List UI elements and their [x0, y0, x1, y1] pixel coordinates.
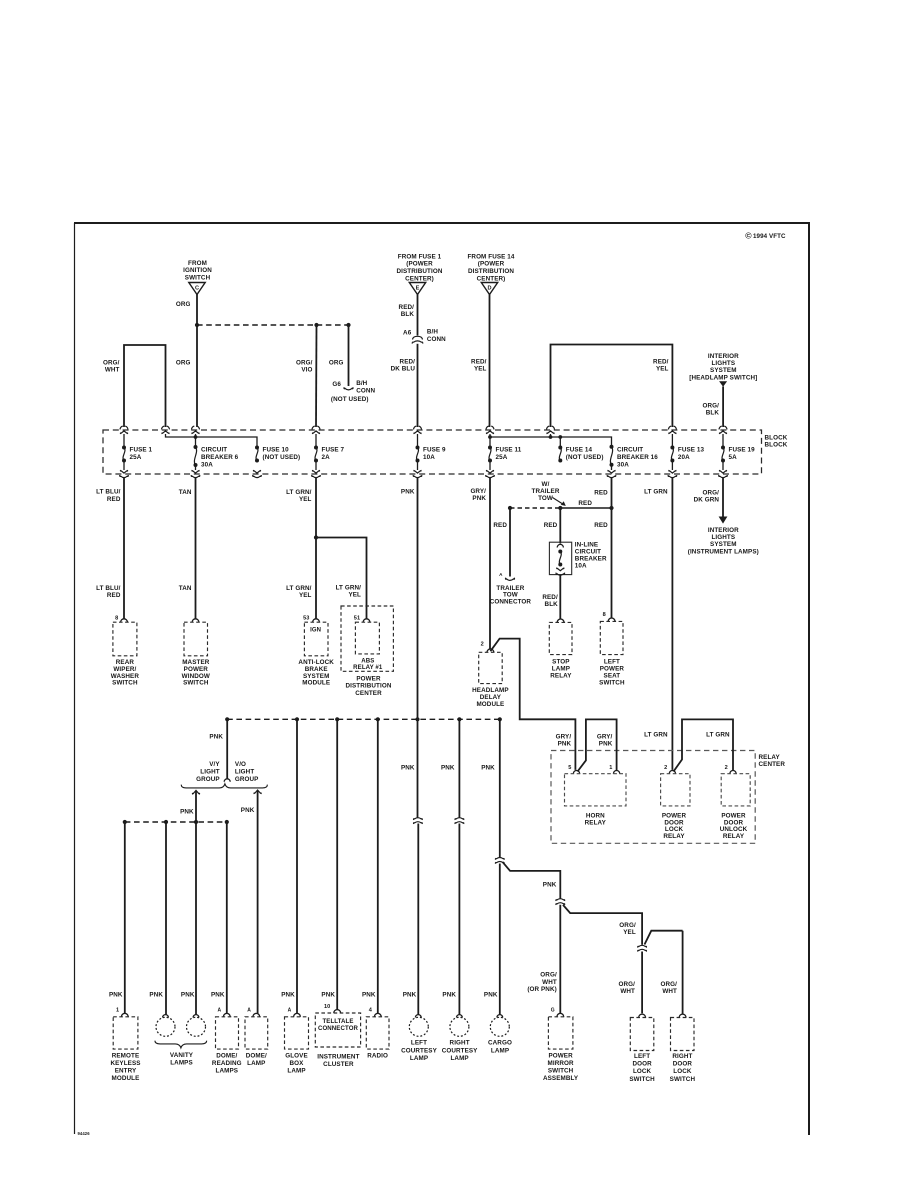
svg-text:LT GRN/: LT GRN/	[286, 585, 312, 592]
svg-text:MODULE: MODULE	[476, 701, 504, 708]
svg-text:CENTER): CENTER)	[405, 275, 434, 282]
node: PNK bus junction x=377.8	[376, 717, 380, 721]
svg-text:PNK: PNK	[472, 495, 486, 502]
vanity lamp 2	[193, 1015, 199, 1018]
node: LT GRN/YEL branch junction	[314, 535, 318, 539]
svg-text:FUSE 11: FUSE 11	[496, 446, 522, 453]
svg-text:PNK: PNK	[241, 807, 255, 814]
svg-text:94426: 94426	[78, 1131, 91, 1136]
node: PNK sub-bus junction x=196	[194, 820, 198, 824]
svg-text:A: A	[217, 1008, 221, 1014]
svg-text:YEL: YEL	[474, 365, 487, 372]
fuse block output connector x=490	[486, 470, 495, 478]
svg-text:WHT: WHT	[542, 979, 557, 986]
svg-text:DOME/: DOME/	[216, 1052, 237, 1059]
svg-text:CIRCUIT: CIRCUIT	[617, 446, 643, 453]
svg-text:(POWER: (POWER	[478, 261, 505, 268]
circuit breaker 6 30A	[194, 445, 198, 467]
svg-text:CLUSTER: CLUSTER	[323, 1061, 354, 1068]
trailer tow bus: dashed optional segment + solid segment	[510, 507, 560, 509]
svg-text:RED/: RED/	[400, 358, 416, 365]
svg-text:RELAY: RELAY	[759, 754, 781, 761]
svg-text:BLK: BLK	[401, 311, 415, 318]
svg-text:B/H: B/H	[356, 380, 367, 387]
svg-text:LT GRN: LT GRN	[644, 489, 668, 496]
svg-text:MODULE: MODULE	[112, 1075, 140, 1082]
svg-text:LEFT: LEFT	[411, 1039, 427, 1046]
svg-text:RED: RED	[594, 489, 608, 496]
wire RED to in-line circuit breaker	[559, 508, 561, 544]
svg-text:(INSTRUMENT LAMPS): (INSTRUMENT LAMPS)	[688, 548, 759, 555]
svg-text:RELAY: RELAY	[585, 819, 607, 826]
svg-text:WHT: WHT	[620, 988, 635, 995]
svg-text:LT GRN: LT GRN	[706, 732, 730, 739]
svg-text:YEL: YEL	[656, 365, 669, 372]
svg-text:INTERIOR: INTERIOR	[708, 527, 739, 534]
right door lock switch	[679, 1014, 686, 1017]
svg-text:RELAY #1: RELAY #1	[353, 664, 383, 671]
node: PNK bus junction x=297.0	[295, 717, 299, 721]
svg-text:PNK: PNK	[401, 489, 415, 496]
svg-text:COURTESY: COURTESY	[401, 1047, 437, 1054]
wire LT GRN/YEL fuse 7 to anti-lock brake system module	[315, 478, 317, 619]
svg-text:(NOT USED): (NOT USED)	[263, 454, 301, 461]
svg-text:SYSTEM: SYSTEM	[710, 541, 737, 548]
svg-text:CONNECTOR: CONNECTOR	[318, 1025, 359, 1032]
fuse block input connector x=195.5	[192, 426, 200, 434]
svg-text:G6: G6	[332, 381, 341, 388]
svg-text:CONN: CONN	[427, 336, 446, 343]
wire jumper horn relay pin 5 to pin 1	[578, 719, 617, 771]
svg-text:TAN: TAN	[179, 489, 192, 496]
svg-text:PNK: PNK	[484, 992, 498, 999]
svg-text:BREAKER 16: BREAKER 16	[617, 454, 658, 461]
svg-text:BLOCK: BLOCK	[765, 435, 788, 442]
wire ORG/WHT tap to right door lock switch	[645, 931, 683, 945]
svg-text:YEL: YEL	[623, 929, 636, 936]
circuit breaker 16 30A	[610, 445, 614, 467]
svg-text:PNK: PNK	[109, 992, 123, 999]
svg-text:RELAY: RELAY	[723, 833, 745, 840]
svg-text:A: A	[288, 1008, 292, 1014]
fuse output stub x=490	[489, 461, 491, 471]
fuse block input connector x=316	[312, 426, 320, 434]
svg-text:PNK: PNK	[481, 765, 495, 772]
svg-text:PNK: PNK	[211, 992, 225, 999]
wire PNK option V/Y with up arrow	[195, 791, 197, 1015]
svg-text:51: 51	[354, 615, 360, 621]
wire RED/BLK to stop lamp relay	[559, 575, 561, 619]
node: PNK sub-bus junction x=226.8	[225, 820, 229, 824]
svg-text:SWITCH: SWITCH	[670, 1076, 696, 1083]
fuse input stub x=417.5	[417, 434, 419, 448]
svg-text:5: 5	[568, 765, 571, 771]
svg-text:TELLTALE: TELLTALE	[322, 1018, 353, 1025]
svg-text:PNK: PNK	[401, 765, 415, 772]
svg-text:(NOT USED): (NOT USED)	[566, 454, 604, 461]
svg-text:COURTESY: COURTESY	[442, 1047, 478, 1054]
svg-text:1: 1	[609, 765, 612, 771]
fuse block output connector x=672.4	[668, 470, 677, 478]
svg-text:READING: READING	[212, 1060, 242, 1067]
fuse 7 2A	[314, 446, 318, 463]
svg-text:LT GRN: LT GRN	[644, 732, 668, 739]
wire PNK to instrument cluster	[336, 719, 338, 1009]
svg-text:LIGHT: LIGHT	[235, 769, 254, 776]
in-line circuit breaker 10A	[549, 542, 571, 574]
wire jumper door lock relay pin 2 to unlock relay pin 2	[674, 719, 734, 771]
svg-text:25A: 25A	[496, 454, 508, 461]
svg-text:V/O: V/O	[235, 761, 246, 768]
svg-text:10A: 10A	[423, 454, 435, 461]
fuse 10 (not used)	[255, 446, 259, 463]
svg-text:ORG/: ORG/	[296, 359, 313, 366]
svg-text:2: 2	[664, 765, 667, 771]
svg-text:DISTRIBUTION: DISTRIBUTION	[346, 683, 392, 690]
wire RED/YEL to fuse 11	[489, 295, 491, 428]
svg-text:YEL: YEL	[348, 592, 361, 599]
svg-text:A: A	[499, 572, 503, 577]
svg-text:2: 2	[725, 765, 728, 771]
wire PNK tap to power mirror switch assembly	[503, 862, 561, 899]
fuse block input connector x=723	[719, 426, 727, 434]
svg-text:30A: 30A	[617, 461, 629, 468]
svg-text:REMOTE: REMOTE	[112, 1052, 140, 1059]
svg-text:G: G	[551, 1008, 555, 1014]
svg-text:DOME/: DOME/	[246, 1052, 267, 1059]
wire ORG stub to unused B/H connector G6	[348, 325, 350, 386]
svg-text:PNK: PNK	[362, 992, 376, 999]
svg-text:PNK: PNK	[181, 992, 195, 999]
wire PNK to vanity lamp 1	[165, 822, 167, 1015]
svg-text:SWITCH: SWITCH	[629, 1076, 655, 1083]
fuse 19 5A	[721, 446, 725, 463]
svg-text:RED: RED	[107, 592, 121, 599]
svg-text:RED: RED	[594, 522, 608, 529]
svg-text:INTERIOR: INTERIOR	[708, 353, 739, 360]
svg-text:1994 VFTC: 1994 VFTC	[753, 233, 786, 240]
svg-text:30A: 30A	[201, 461, 213, 468]
svg-text:SWITCH: SWITCH	[599, 679, 625, 686]
wire LT GRN fuse 13 to power door lock relay	[671, 478, 673, 770]
svg-text:LAMPS: LAMPS	[170, 1059, 193, 1066]
svg-text:LAMP: LAMP	[247, 1060, 265, 1067]
connector triangle C from ignition switch	[183, 260, 212, 295]
connector triangle E from fuse 1 (power distribution center)	[397, 253, 443, 294]
svg-text:TOW: TOW	[538, 495, 553, 502]
svg-text:LT BLU/: LT BLU/	[96, 489, 121, 496]
stop lamp relay	[557, 619, 564, 622]
fuse 13 20A	[670, 446, 674, 463]
svg-text:ORG: ORG	[176, 301, 191, 308]
wire RED breaker 16 to left power seat switch	[611, 478, 613, 618]
svg-text:TAN: TAN	[179, 585, 192, 592]
svg-text:8: 8	[603, 612, 606, 618]
svg-text:DISTRIBUTION: DISTRIBUTION	[397, 268, 443, 275]
fuse 1 25A	[122, 446, 126, 463]
breaker output stubs	[195, 465, 197, 470]
svg-text:4: 4	[369, 1008, 373, 1014]
fuse block output connector x=257	[253, 470, 262, 478]
fuse block input connector x=490	[486, 426, 494, 434]
svg-text:POWER: POWER	[548, 1052, 573, 1059]
connector G6 B/H CONN (not used)	[344, 387, 353, 390]
svg-text:SWITCH: SWITCH	[185, 274, 211, 281]
svg-text:IGNITION: IGNITION	[183, 267, 212, 274]
svg-text:YEL: YEL	[299, 592, 312, 599]
wire PNK to glove box lamp	[296, 719, 298, 1013]
svg-text:IGN: IGN	[310, 628, 321, 634]
svg-text:CENTER: CENTER	[355, 690, 382, 697]
wire ORG/WHT branch (inverted U feeding fuse 1 and breaker 6 bus)	[124, 345, 166, 427]
svg-text:MIRROR: MIRROR	[548, 1060, 574, 1067]
page border frame	[74, 222, 810, 224]
connector triangle D from fuse 14 (power distribution center)	[467, 253, 514, 294]
svg-text:V/Y: V/Y	[209, 761, 220, 768]
svg-text:RED: RED	[544, 522, 558, 529]
fuse block input connector x=124	[120, 426, 128, 434]
svg-text:PNK: PNK	[442, 992, 456, 999]
svg-text:FUSE 7: FUSE 7	[322, 446, 345, 453]
svg-text:GLOVE: GLOVE	[285, 1052, 308, 1059]
svg-text:WHT: WHT	[105, 366, 120, 373]
svg-text:ORG/: ORG/	[619, 981, 636, 988]
svg-text:1: 1	[116, 1008, 119, 1014]
svg-text:CENTER: CENTER	[759, 761, 786, 768]
svg-text:10A: 10A	[575, 562, 587, 569]
right courtesy lamp	[457, 1015, 463, 1018]
svg-text:POWER: POWER	[356, 675, 381, 682]
svg-text:ORG/: ORG/	[703, 403, 720, 410]
svg-text:[HEADLAMP SWITCH]: [HEADLAMP SWITCH]	[689, 374, 757, 381]
wire GRY/PNK fuse 11 to headlamp delay module	[489, 478, 491, 651]
svg-text:SWITCH: SWITCH	[548, 1068, 574, 1075]
svg-text:LIGHT: LIGHT	[200, 769, 219, 776]
svg-text:LEFT: LEFT	[634, 1053, 650, 1060]
svg-text:(POWER: (POWER	[406, 261, 433, 268]
svg-text:10: 10	[324, 1004, 330, 1010]
svg-text:GROUP: GROUP	[196, 776, 220, 783]
svg-text:LIGHTS: LIGHTS	[711, 534, 735, 541]
svg-text:FUSE 14: FUSE 14	[566, 446, 593, 453]
svg-text:LT GRN/: LT GRN/	[336, 585, 362, 592]
wire LT BLU/RED fuse 1 to rear wiper/washer switch	[123, 478, 125, 619]
svg-text:E: E	[416, 286, 420, 292]
fuse output stub x=316	[315, 461, 317, 471]
wire ORG/YEL tap to left door lock switch	[563, 905, 642, 945]
wire RED to trailer tow connector	[509, 508, 511, 577]
svg-text:GRY/: GRY/	[470, 488, 486, 495]
svg-text:RED/: RED/	[399, 304, 415, 311]
svg-text:8: 8	[115, 615, 118, 621]
svg-text:RADIO: RADIO	[367, 1052, 388, 1059]
wire PNK to remote keyless entry module	[124, 822, 126, 1013]
svg-text:ORG/: ORG/	[540, 972, 557, 979]
svg-text:YEL: YEL	[299, 496, 312, 503]
svg-text:PNK: PNK	[180, 809, 194, 816]
svg-text:PNK: PNK	[543, 881, 557, 888]
svg-text:BOX: BOX	[290, 1060, 305, 1067]
svg-text:ENTRY: ENTRY	[115, 1068, 137, 1075]
svg-text:KEYLESS: KEYLESS	[110, 1060, 140, 1067]
svg-text:53: 53	[303, 615, 309, 621]
dashed PNK sub-bus	[125, 821, 227, 823]
svg-text:D: D	[487, 286, 491, 292]
fuse block internal bus (breaker 6 / fuse 10)	[166, 434, 258, 448]
svg-text:LAMP: LAMP	[410, 1055, 428, 1062]
svg-text:PNK: PNK	[558, 741, 572, 748]
svg-text:LOCK: LOCK	[633, 1068, 652, 1075]
left courtesy lamp	[415, 1015, 421, 1018]
svg-text:ASSEMBLY: ASSEMBLY	[543, 1075, 579, 1082]
svg-text:PNK: PNK	[149, 992, 163, 999]
svg-text:20A: 20A	[678, 454, 690, 461]
svg-text:BLK: BLK	[545, 601, 559, 608]
svg-text:PNK: PNK	[321, 992, 335, 999]
svg-text:LAMPS: LAMPS	[216, 1068, 239, 1075]
svg-text:DOOR: DOOR	[673, 1061, 693, 1068]
wire RED/BLK	[417, 295, 419, 336]
svg-text:GRY/: GRY/	[556, 734, 572, 741]
svg-text:ORG/: ORG/	[661, 981, 678, 988]
svg-text:25A: 25A	[130, 454, 142, 461]
wire jumper headlamp delay module to horn relay pin 5	[490, 639, 575, 770]
connector A6 B/H CONN	[412, 336, 422, 343]
svg-text:FROM: FROM	[188, 260, 207, 267]
fuse block (dashed box)	[103, 430, 762, 474]
dashed ORG bus	[197, 324, 349, 326]
svg-text:C: C	[195, 286, 199, 292]
fuse 11 25A	[488, 446, 492, 463]
node: PNK bus junction x=337.2	[335, 717, 339, 721]
svg-text:PNK: PNK	[441, 765, 455, 772]
wire PNK to left courtesy lamp (with break)	[417, 719, 419, 817]
master power window switch	[192, 619, 199, 622]
fuse input stub x=124	[123, 434, 125, 448]
fuse block input connector x=417.5	[414, 426, 422, 434]
W/ TRAILER TOW note with arrow	[532, 481, 560, 502]
svg-text:LIGHTS: LIGHTS	[711, 360, 735, 367]
svg-text:LT BLU/: LT BLU/	[96, 585, 121, 592]
svg-text:RED/: RED/	[542, 594, 558, 601]
svg-text:FUSE 13: FUSE 13	[678, 446, 705, 453]
svg-text:ORG: ORG	[176, 359, 191, 366]
wire PNK to cargo lamp (break with tap)	[499, 719, 501, 857]
svg-text:SYSTEM: SYSTEM	[710, 367, 737, 374]
wire PNK to right courtesy lamp (with break)	[458, 719, 460, 817]
svg-text:ORG/: ORG/	[619, 922, 636, 929]
fuse block internal bus (fuse 11 / fuse 14 / breaker 16)	[490, 437, 612, 447]
fuse output stub x=417.5	[417, 461, 419, 471]
svg-text:PNK: PNK	[209, 733, 223, 740]
fuse block input connector x=672.4	[668, 426, 676, 434]
svg-text:INSTRUMENT: INSTRUMENT	[317, 1054, 359, 1061]
svg-text:SWITCH: SWITCH	[183, 680, 209, 687]
svg-text:ORG/: ORG/	[103, 359, 120, 366]
svg-text:CARGO: CARGO	[488, 1039, 512, 1046]
svg-text:PNK: PNK	[599, 741, 613, 748]
svg-text:DOOR: DOOR	[632, 1061, 652, 1068]
fuse block input connector x=550.5	[547, 426, 555, 434]
copyright notice	[745, 231, 786, 241]
wire ORG/VIO to fuse 7	[315, 325, 318, 427]
svg-text:DK GRN: DK GRN	[694, 497, 720, 504]
svg-text:MODULE: MODULE	[302, 680, 330, 687]
node: PNK bus junction x=417.5	[415, 717, 419, 721]
svg-text:FUSE 10: FUSE 10	[263, 446, 290, 453]
left door lock switch	[639, 1014, 646, 1017]
svg-text:BLOCK: BLOCK	[765, 442, 788, 449]
svg-text:SWITCH: SWITCH	[112, 680, 138, 687]
svg-text:CENTER): CENTER)	[477, 275, 506, 282]
node: PNK bus junction x=459.4	[457, 717, 461, 721]
wire RED/DK BLU to fuse 9	[417, 344, 419, 427]
svg-text:CIRCUIT: CIRCUIT	[201, 446, 227, 453]
fuse output stub x=124	[123, 461, 125, 471]
wire PNK option V/O with up arrow	[257, 790, 259, 1015]
svg-text:5A: 5A	[729, 454, 738, 461]
svg-text:FROM FUSE 1: FROM FUSE 1	[398, 253, 442, 260]
svg-text:BLK: BLK	[706, 410, 720, 417]
svg-text:PNK: PNK	[403, 992, 417, 999]
svg-text:B/H: B/H	[427, 329, 438, 336]
svg-text:CONN: CONN	[356, 388, 375, 395]
svg-text:FUSE 9: FUSE 9	[423, 446, 446, 453]
wire ORG/BLK to fuse 19	[722, 387, 724, 428]
wire TAN breaker 6 to master power window switch	[195, 478, 197, 619]
svg-text:LT GRN/: LT GRN/	[286, 489, 312, 496]
svg-text:2: 2	[481, 642, 484, 648]
svg-text:RIGHT: RIGHT	[672, 1053, 692, 1060]
svg-text:WHT: WHT	[662, 988, 677, 995]
fuse input stub x=672.4	[671, 434, 673, 448]
svg-text:FROM FUSE 14: FROM FUSE 14	[467, 253, 514, 260]
light group selection brace	[181, 784, 267, 788]
svg-text:RED: RED	[107, 496, 121, 503]
svg-text:CONNECTOR: CONNECTOR	[490, 599, 532, 606]
svg-text:A: A	[247, 1008, 251, 1014]
fuse block input connector x=165.5	[162, 426, 170, 434]
fuse input stub x=490	[489, 434, 491, 448]
svg-text:RIGHT: RIGHT	[450, 1039, 470, 1046]
svg-text:VIO: VIO	[301, 366, 312, 373]
fuse 9 10A	[416, 446, 420, 463]
svg-text:RELAY: RELAY	[663, 833, 685, 840]
fuse block output connector x=417.5	[413, 470, 422, 478]
svg-text:RELAY: RELAY	[550, 672, 572, 679]
node: PNK bus junction x=227.2	[225, 717, 229, 721]
node: PNK bus junction x=499.8	[498, 717, 502, 721]
relay center (dashed box)	[551, 751, 755, 844]
wire PNK to light group brace	[226, 719, 228, 779]
svg-text:RED/: RED/	[471, 358, 487, 365]
fuse 14 (not used)	[558, 446, 562, 463]
svg-text:ORG/: ORG/	[703, 490, 720, 497]
wire ORG/DK GRN fuse 19 to interior lights system (instrument lamps)	[722, 478, 724, 517]
fuse block label	[765, 435, 788, 449]
wire ORG/WHT (OR PNK) labels	[527, 972, 557, 994]
fuse block output connector x=316	[312, 470, 321, 478]
svg-text:BREAKER 6: BREAKER 6	[201, 454, 239, 461]
svg-text:RED: RED	[493, 522, 507, 529]
fuse block output connector x=611.5	[607, 470, 616, 478]
node: ignition bus junctions	[195, 323, 199, 327]
vanity lamp 1	[163, 1015, 169, 1018]
svg-text:DK BLU: DK BLU	[391, 365, 416, 372]
wire LT GRN/YEL branch to ABS relay	[316, 538, 367, 619]
dashed PNK bus	[227, 718, 500, 720]
fuse input stub x=316	[315, 434, 317, 448]
